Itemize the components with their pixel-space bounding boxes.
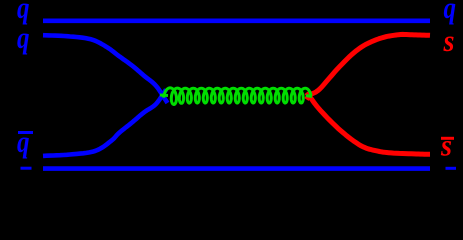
gluon left tail to vertex [160,94,168,98]
svg-text:s: s [443,23,455,58]
node: cut-off label overline bottom-left [21,167,32,170]
svg-text:q: q [17,124,30,159]
gluon propagator (green coil) [164,88,312,105]
gluon right tail to vertex [306,94,312,98]
wire: outgoing sbar antiquark [307,93,431,155]
wire: bottom spectator quark line [43,166,430,171]
wire: top spectator quark line [43,18,430,23]
node: cut-off label overline bottom-right [446,167,457,170]
node: sbar overline [441,137,454,140]
svg-text:q: q [17,20,30,55]
wire: incoming antiquark qbar curving to vertex [43,90,166,156]
wire: outgoing s quark [307,34,431,99]
node: qbar overline [18,131,33,134]
wire: incoming quark q curving to vertex [43,35,168,103]
svg-text:q: q [444,0,457,25]
svg-text:s: s [440,128,452,163]
